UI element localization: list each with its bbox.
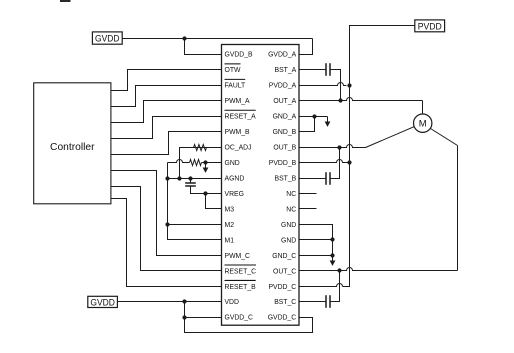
- wire controller to PWM_C: [111, 171, 222, 256]
- svg-text:GND_A: GND_A: [273, 112, 297, 121]
- svg-text:PWM_A: PWM_A: [225, 96, 250, 105]
- junction GVDD / GVDD_B drop: [182, 36, 186, 40]
- junction PVDD rail / PVDD_B: [347, 160, 351, 164]
- svg-text:GVDD_C: GVDD_C: [225, 313, 254, 322]
- power flag GVDD (top): [92, 32, 122, 44]
- capacitor C4 (BST_C): [325, 295, 327, 308]
- svg-text:VREG: VREG: [225, 189, 245, 198]
- svg-text:NC: NC: [286, 204, 296, 213]
- svg-text:RESET_B: RESET_B: [225, 282, 256, 291]
- wire controller to RESET_A: [111, 117, 222, 139]
- svg-text:RESET_C: RESET_C: [225, 266, 257, 275]
- wire GND_C tie: [299, 255, 333, 257]
- svg-text:PVDD: PVDD: [418, 21, 442, 32]
- wire OUT_B with hop over PVDD rail: [299, 145, 366, 148]
- svg-text:NC: NC: [286, 189, 296, 198]
- svg-text:VDD: VDD: [225, 297, 239, 306]
- wire PVDD_B with hop over BST_B riser: [299, 160, 350, 163]
- junction PVDD rail / PVDD_A: [347, 83, 351, 87]
- svg-text:GVDD: GVDD: [95, 34, 120, 45]
- wire controller to FAULT: [111, 86, 222, 107]
- resistor R2 (GND pin): [190, 160, 202, 166]
- svg-text:GVDD_A: GVDD_A: [268, 50, 296, 59]
- capacitor C3 (BST_B): [325, 172, 327, 185]
- wire controller to OTW: [111, 70, 222, 91]
- wire GVDD rail to GVDD_A corner: [123, 38, 313, 40]
- wire OUT_A to motor: [299, 98, 423, 101]
- junction ground-net / AGND: [165, 176, 169, 180]
- wire under-IC GVDD_C loop: [185, 302, 313, 333]
- wire ground-net vertical (GND-AGND-M2-M1): [168, 163, 222, 240]
- junction GND tie: [330, 237, 334, 241]
- wire GND resistor to pin: [202, 162, 222, 164]
- ground (power, channel A/B): [327, 117, 329, 122]
- wire OC_ADJ resistor to pin: [207, 147, 222, 149]
- junction AGND / capacitor C1: [188, 176, 192, 180]
- svg-text:BST_C: BST_C: [274, 297, 296, 306]
- svg-text:OUT_A: OUT_A: [273, 96, 296, 105]
- motor M1 (BLDC): [414, 114, 432, 132]
- junction GND_A / GND_B: [312, 114, 316, 118]
- svg-text:PVDD_C: PVDD_C: [269, 282, 297, 291]
- wire AGND pin: [168, 178, 222, 180]
- svg-text:GVDD: GVDD: [90, 297, 115, 308]
- svg-text:PWM_B: PWM_B: [225, 127, 250, 136]
- wire controller to RESET_C: [111, 187, 222, 271]
- svg-text:PVDD_A: PVDD_A: [269, 81, 297, 90]
- wire OC_ADJ left segment and drop to AGND: [180, 148, 207, 179]
- wire BST_C cap riser to OUT_C: [331, 271, 340, 302]
- wire OUT_C diagonal to motor: [431, 129, 458, 146]
- svg-text:GND_B: GND_B: [273, 127, 297, 136]
- wire PVDD_A with hop over BST_A drop: [299, 83, 347, 86]
- svg-text:GND_C: GND_C: [272, 251, 296, 260]
- svg-text:PVDD_B: PVDD_B: [269, 158, 297, 167]
- wire OUT_C riser: [457, 146, 459, 271]
- svg-text:M3: M3: [225, 204, 235, 213]
- svg-text:GND: GND: [281, 220, 296, 229]
- junction OUT_A / BST_A: [338, 98, 342, 102]
- svg-text:PWM_C: PWM_C: [225, 251, 251, 260]
- wire BST_B cap riser to OUT_B: [331, 148, 340, 179]
- junction GVDD_C left / riser: [182, 315, 186, 319]
- svg-text:GND: GND: [281, 235, 296, 244]
- op IC U1 (motor driver) box: [222, 45, 300, 326]
- wire NC stub 2: [299, 208, 317, 210]
- wire GVDD drop to GVDD_B: [185, 39, 222, 55]
- capacitor C2 (BST_A): [325, 63, 327, 76]
- svg-text:OUT_C: OUT_C: [273, 266, 296, 275]
- wire OUT_A riser to motor: [422, 101, 424, 115]
- wire C1 top lead: [190, 179, 192, 183]
- wire GND_B tie: [299, 117, 315, 132]
- wire NC stub 1: [299, 193, 317, 195]
- junction GND / ground symbol: [203, 160, 207, 164]
- svg-text:BST_B: BST_B: [275, 173, 297, 182]
- wire PVDD rail: [343, 26, 415, 287]
- svg-text:OC_ADJ: OC_ADJ: [225, 143, 252, 152]
- svg-text:GVDD_C: GVDD_C: [268, 313, 297, 322]
- junction GND_C tie: [330, 253, 334, 257]
- svg-text:M2: M2: [225, 220, 235, 229]
- capacitor C1 (VREG bypass): [185, 182, 196, 184]
- junction AGND / OC_ADJ drop: [177, 176, 181, 180]
- wire GND (right, pin 13) tie: [299, 239, 333, 241]
- junction VREG / M3 branch: [203, 191, 207, 195]
- wire controller to RESET_B: [111, 199, 222, 287]
- svg-text:RESET_A: RESET_A: [225, 112, 256, 121]
- svg-text:M: M: [419, 119, 427, 130]
- wire C1 bottom lead to VREG: [191, 187, 222, 194]
- wire M2 to ground-net: [168, 224, 222, 226]
- svg-text:OTW: OTW: [225, 65, 241, 74]
- svg-text:AGND: AGND: [225, 173, 245, 182]
- ground (power, channel C): [332, 256, 334, 261]
- svg-text:M1: M1: [225, 235, 235, 244]
- wire M3 tie to VREG: [206, 194, 222, 209]
- power flag PVDD: [415, 20, 445, 32]
- junction ground-net / M2: [165, 222, 169, 226]
- controller block: [34, 83, 111, 204]
- power flag GVDD (bottom): [88, 296, 118, 307]
- wire OUT_C with hop over PVDD rail: [299, 268, 458, 271]
- wire GND (right, pin 12) corner: [299, 225, 333, 256]
- junction OUT_B / BST_B: [337, 145, 341, 149]
- wire controller to PWM_B: [111, 132, 222, 155]
- svg-text:GND: GND: [225, 158, 240, 167]
- wire GVDD_C left pin: [185, 317, 222, 319]
- wire GVDD_A pin riser: [299, 39, 313, 55]
- wire BST_A cap to OUT_A: [331, 70, 341, 101]
- cropped text fragment (top edge): [60, 0, 71, 2]
- svg-text:BST_A: BST_A: [275, 65, 297, 74]
- resistor R1 (OC_ADJ): [194, 145, 207, 151]
- svg-text:GVDD_B: GVDD_B: [225, 50, 253, 59]
- wire GND_A: [299, 116, 328, 118]
- ground (analog, left): [205, 163, 207, 168]
- wire PVDD_C with hop over BST_C riser: [299, 284, 343, 287]
- wire controller to PWM_A: [111, 101, 222, 123]
- wire BST_A pin to cap: [299, 69, 327, 71]
- svg-text:FAULT: FAULT: [225, 81, 246, 90]
- wire GVDD to VDD pin: [118, 301, 222, 303]
- junction OUT_C / BST_C: [337, 268, 341, 272]
- svg-text:OUT_B: OUT_B: [273, 143, 296, 152]
- wire BST_C pin to cap: [299, 301, 327, 303]
- junction VDD / GVDD_C riser: [182, 299, 186, 303]
- wire BST_B pin to cap: [299, 178, 327, 180]
- svg-text:Controller: Controller: [50, 142, 95, 153]
- wire OUT_B diagonal to motor: [366, 127, 415, 148]
- wire GND pin branch with hop over OC_ADJ drop: [168, 160, 190, 163]
